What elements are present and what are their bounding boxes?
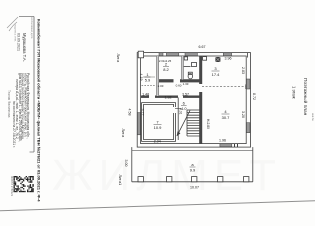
stove dark square	[215, 57, 220, 62]
room label 6	[181, 101, 187, 111]
svg-text:Лит.а: Лит.а	[116, 54, 120, 63]
room label 7	[154, 120, 163, 131]
dim 4.01	[178, 108, 182, 115]
window left 1	[137, 113, 140, 135]
svg-text:Н-2.80: Н-2.80	[206, 119, 210, 129]
svg-text:1 этаж: 1 этаж	[292, 86, 297, 99]
svg-text:17.4: 17.4	[212, 72, 221, 77]
room1-room2 wall fill	[157, 56, 159, 96]
svg-text:30.7: 30.7	[222, 115, 231, 120]
wall between room2 and wc	[181, 56, 183, 80]
porch pillar 2	[167, 177, 172, 182]
svg-text:Лит.а: Лит.а	[121, 129, 125, 138]
svg-text:1.96: 1.96	[219, 139, 226, 143]
svg-text:ЖИЛМЕТ: ЖИЛМЕТ	[52, 151, 282, 200]
title: 1 этаж	[292, 86, 297, 99]
stamp address line 5	[15, 79, 19, 139]
svg-text:2.83: 2.83	[241, 67, 245, 74]
corridor wall over room7	[141, 95, 149, 97]
dim 8.72	[252, 93, 256, 100]
QR datamatrix code	[14, 176, 34, 192]
svg-text:6.67: 6.67	[199, 45, 206, 49]
top-right corner tick	[247, 53, 249, 58]
stamp light position text	[14, 24, 18, 42]
dashed end tick	[245, 84, 247, 89]
window bottom 1	[220, 144, 232, 147]
svg-text:4.58: 4.58	[128, 109, 132, 116]
corridor wall fill	[141, 96, 149, 98]
wall below rooms 2-3	[159, 79, 174, 81]
window top 3	[223, 53, 231, 56]
wc toilet	[188, 74, 192, 79]
central wall upper part	[199, 56, 201, 84]
wc sink	[192, 63, 197, 67]
porch pillar 5	[244, 177, 249, 182]
central wall lower part	[199, 92, 201, 144]
wall between room1 and room2	[156, 56, 158, 96]
svg-text:3.00: 3.00	[124, 160, 128, 167]
staircase steps	[187, 113, 200, 136]
svg-text:3.57: 3.57	[182, 93, 189, 97]
svg-text:согласовано дата: согласовано дата	[30, 17, 33, 39]
svg-text:4.01: 4.01	[178, 108, 182, 115]
room 6 floor tick	[175, 107, 181, 109]
stamp technician note	[7, 90, 11, 118]
furnace square room4	[203, 57, 207, 61]
room label 4	[222, 109, 231, 120]
window right 2	[246, 123, 250, 133]
stamp long text: copy issued line	[37, 19, 42, 202]
right edge tiny mark	[311, 113, 314, 121]
room 7 inner box	[144, 105, 174, 140]
staircase top edge	[187, 109, 200, 111]
stamp address line 1	[26, 73, 30, 139]
dim 3.77	[141, 109, 145, 116]
QR side text	[10, 176, 14, 197]
svg-text:8.72: 8.72	[252, 93, 256, 100]
central wall solid fill	[141, 56, 202, 144]
svg-text:по состоянию на 27.08.2021 г.: по состоянию на 27.08.2021 г.	[12, 101, 16, 148]
svg-text:Техник Филиппова: Техник Филиппова	[7, 90, 11, 118]
svg-text:Мурашова Т.А.: Мурашова Т.А.	[22, 33, 27, 62]
room1 small dim line	[143, 76, 155, 78]
svg-text:9.9: 9.9	[190, 168, 196, 173]
left stamp rule line	[33, 17, 35, 153]
dim 3.00	[124, 160, 128, 167]
stair hall left wall	[177, 98, 179, 141]
svg-text:2.94: 2.94	[154, 139, 161, 143]
dashed line big room	[202, 86, 246, 88]
wc corner box	[184, 57, 187, 60]
svg-text:Лит.а1: Лит.а1	[118, 175, 122, 186]
stamp address line 2	[23, 73, 27, 137]
svg-text:Копия/абонент ГУП Московской о: Копия/абонент ГУП Московской области «МО…	[37, 19, 42, 202]
svg-text:1.48: 1.48	[142, 93, 149, 97]
svg-text:3.20: 3.20	[241, 111, 245, 118]
svg-text:4.19: 4.19	[139, 74, 143, 81]
staircase left rail	[186, 110, 188, 136]
stair arrow head	[177, 131, 181, 136]
porch pillar 3	[192, 177, 197, 182]
svg-text:10.9: 10.9	[154, 125, 163, 130]
porch inner floor line	[132, 149, 253, 151]
top-left corner notch	[138, 51, 143, 58]
wall fill below rooms 2-3	[159, 80, 174, 82]
staircase diagonal	[177, 111, 190, 136]
left stamp top tick	[19, 16, 34, 18]
wc partition tick	[183, 66, 190, 68]
room label 2	[163, 62, 170, 73]
room label 1	[145, 72, 152, 83]
window top small	[159, 53, 163, 56]
porch pillar 1	[138, 177, 143, 182]
dim 3.20	[241, 111, 245, 118]
svg-text:Поэтажный план: Поэтажный план	[302, 78, 309, 116]
porch pillar 4	[218, 177, 223, 182]
porch bottom line	[132, 181, 253, 183]
outer wall (outer line)	[137, 53, 250, 148]
window top 1	[166, 53, 178, 56]
room 7 outer box	[142, 103, 176, 142]
stamp address line 6	[12, 101, 16, 148]
stamp executor name	[22, 33, 27, 62]
left stamp bottom tick	[30, 151, 35, 153]
porch label a	[190, 162, 197, 173]
porch right wall	[252, 147, 254, 182]
svg-text:5.9: 5.9	[145, 78, 151, 83]
svg-text:0.60: 0.60	[176, 84, 182, 88]
window right 1	[246, 79, 250, 89]
svg-text:инв.№: инв.№	[311, 113, 314, 121]
svg-text:подпись инв.: подпись инв.	[14, 24, 18, 42]
porch left wall	[131, 147, 133, 182]
windows (gray blocks)	[137, 53, 250, 147]
dim 4.19	[139, 74, 143, 81]
stamp address line 3	[21, 73, 25, 140]
stamp tiny row labels	[30, 17, 33, 39]
page bottom edge	[0, 201, 315, 211]
stamp signature squiggle	[7, 17, 18, 31]
svg-text:1.92: 1.92	[165, 96, 172, 100]
svg-text:2.31х2.25: 2.31х2.25	[159, 59, 172, 63]
dim 4.58	[128, 109, 132, 116]
label Lit.a left	[121, 129, 125, 138]
stamp address line 4	[18, 73, 22, 142]
dim H-2.80	[206, 119, 210, 129]
svg-text:2.03: 2.03	[158, 84, 164, 88]
dashed line room 1	[142, 84, 157, 86]
title: Поэтажный план	[302, 78, 309, 116]
room label 3	[212, 66, 221, 77]
svg-text:3.96: 3.96	[225, 57, 232, 61]
svg-text:10.07: 10.07	[190, 186, 199, 190]
stamp date	[17, 33, 21, 51]
svg-text:МОБТИ 2760121: МОБТИ 2760121	[10, 176, 14, 197]
dim 2.83	[241, 67, 245, 74]
svg-text:1.33: 1.33	[183, 82, 189, 86]
label Lit.a1	[118, 175, 122, 186]
svg-text:3.77: 3.77	[141, 109, 145, 116]
svg-text:8.2: 8.2	[163, 67, 169, 72]
outer wall (inner line)	[141, 56, 247, 144]
window top 2	[185, 53, 197, 56]
bottom wall door tick	[234, 144, 236, 148]
label Lit.a top	[116, 54, 120, 63]
